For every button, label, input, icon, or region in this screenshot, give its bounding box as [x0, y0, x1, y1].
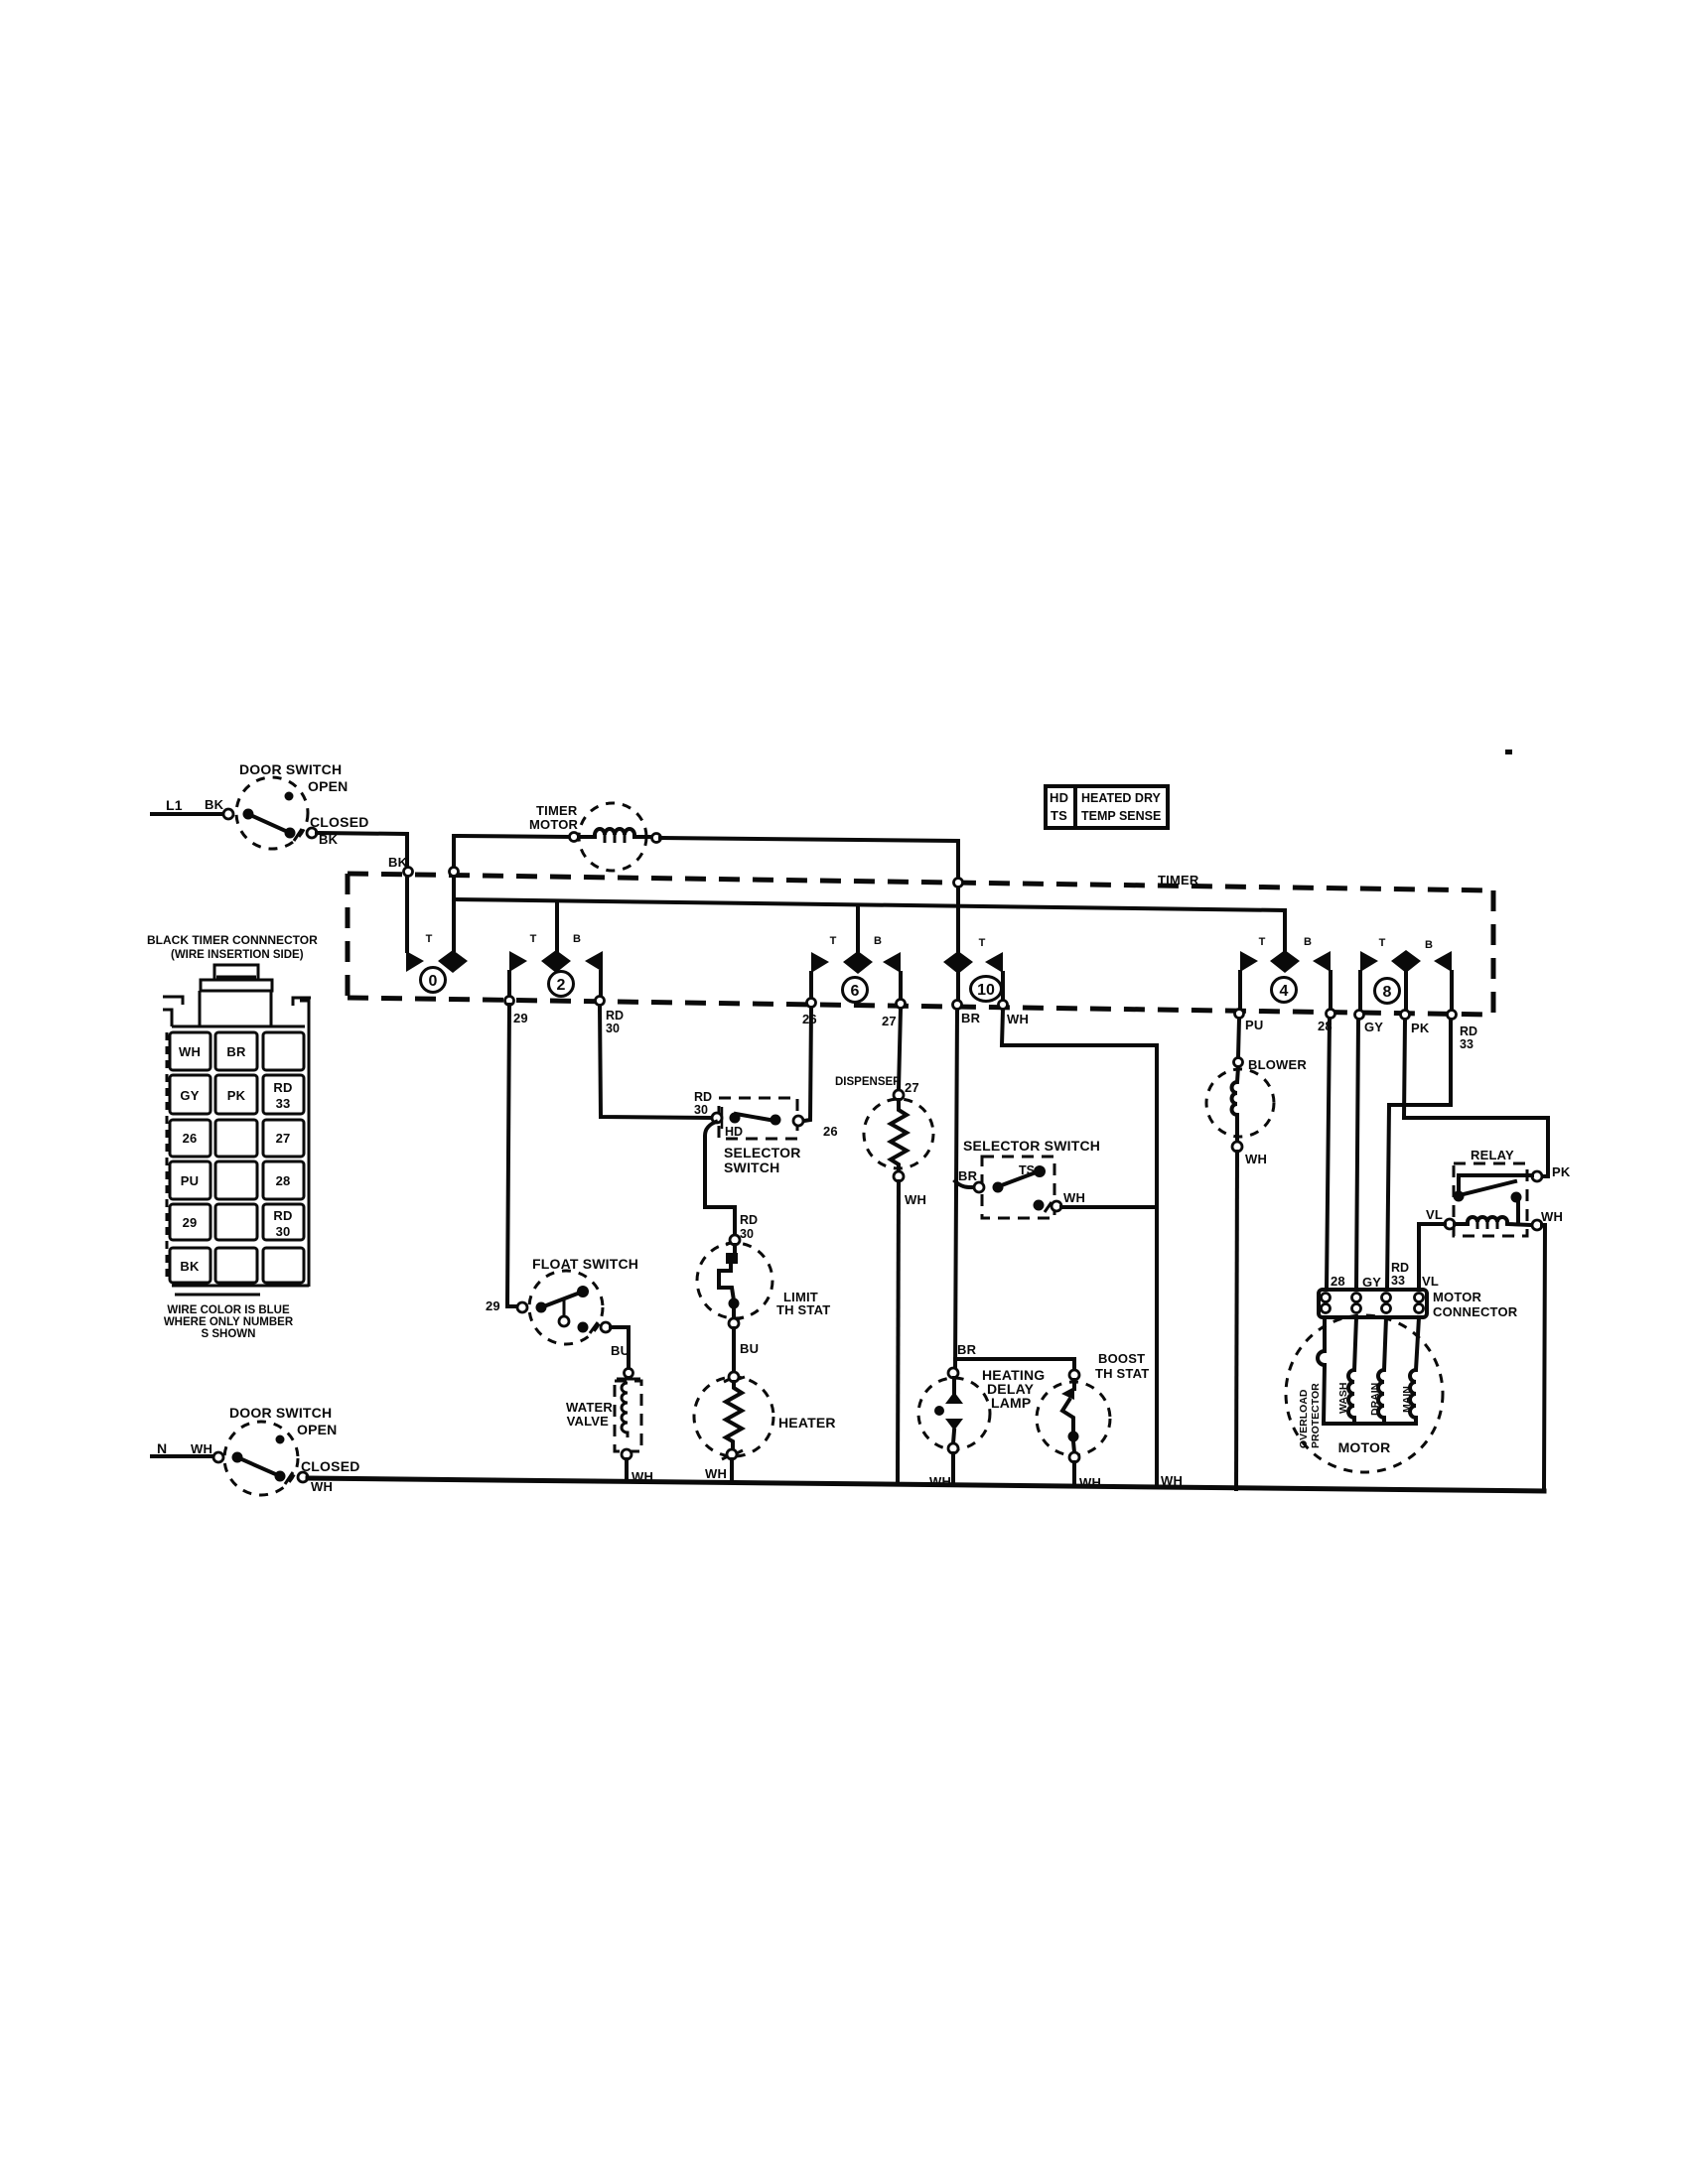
svg-text:33: 33: [276, 1096, 291, 1111]
svg-text:HD: HD: [1050, 790, 1068, 805]
svg-text:OVERLOAD: OVERLOAD: [1298, 1389, 1310, 1448]
svg-text:BK: BK: [180, 1259, 200, 1274]
svg-text:PU: PU: [1245, 1018, 1263, 1032]
svg-text:OPEN: OPEN: [308, 778, 348, 794]
svg-text:33: 33: [1391, 1274, 1405, 1288]
svg-text:29: 29: [183, 1215, 198, 1230]
wire float switch to water valve (BU): [611, 1327, 640, 1379]
svg-text:30: 30: [606, 1022, 620, 1035]
svg-text:27: 27: [905, 1080, 919, 1095]
stray ink speck: [1505, 750, 1512, 754]
svg-text:BU: BU: [740, 1341, 759, 1356]
svg-text:WH: WH: [191, 1441, 212, 1456]
water valve solenoid: [566, 1381, 653, 1484]
svg-text:GY: GY: [1362, 1275, 1381, 1290]
svg-text:RD: RD: [273, 1208, 292, 1223]
svg-text:30: 30: [694, 1103, 708, 1117]
svg-text:PK: PK: [1552, 1164, 1571, 1179]
wire door switch to timer cam 0 (BK): [317, 833, 413, 951]
svg-text:MAIN: MAIN: [1401, 1386, 1413, 1413]
connector cells row 5: 29 - RD30: [170, 1204, 304, 1240]
svg-text:WIRE COLOR IS BLUE: WIRE COLOR IS BLUE: [167, 1304, 290, 1316]
svg-text:PROTECTOR: PROTECTOR: [1310, 1383, 1322, 1448]
svg-text:B: B: [1304, 936, 1312, 948]
svg-text:DOOR SWITCH: DOOR SWITCH: [229, 1405, 332, 1421]
wire selector HD common to limit thermostat (RD 30): [705, 1122, 758, 1241]
svg-text:DRAIN: DRAIN: [1369, 1383, 1381, 1416]
svg-text:TH STAT: TH STAT: [1095, 1366, 1149, 1381]
svg-text:0: 0: [429, 973, 438, 990]
timer cam 2: [509, 901, 603, 997]
svg-text:RD: RD: [606, 1009, 624, 1023]
svg-text:MOTOR: MOTOR: [1433, 1290, 1482, 1304]
svg-text:N: N: [157, 1440, 167, 1456]
blower: [1206, 1057, 1307, 1489]
svg-text:29: 29: [486, 1298, 500, 1313]
connector cells row 6: BK - -: [170, 1248, 304, 1283]
relay: [1426, 1148, 1571, 1236]
svg-text:WH: WH: [179, 1044, 201, 1059]
dispenser: [835, 1076, 933, 1484]
svg-text:SELECTOR: SELECTOR: [724, 1145, 801, 1160]
svg-text:8: 8: [1383, 984, 1392, 1001]
svg-text:T: T: [530, 933, 537, 945]
svg-text:MOTOR: MOTOR: [529, 817, 579, 832]
svg-text:26: 26: [823, 1124, 838, 1139]
svg-text:CLOSED: CLOSED: [310, 814, 369, 830]
wire WH: cam 10 B to bottom bus: [999, 973, 1158, 1487]
svg-text:TIMER: TIMER: [1158, 873, 1199, 887]
svg-text:TEMP SENSE: TEMP SENSE: [1081, 809, 1161, 823]
timer cam 4: [1240, 936, 1331, 1003]
svg-text:GY: GY: [180, 1088, 199, 1103]
svg-text:28: 28: [1318, 1019, 1333, 1033]
svg-text:28: 28: [276, 1173, 291, 1188]
svg-text:WH: WH: [905, 1192, 926, 1207]
timer dashed enclosure: [348, 873, 1493, 1015]
svg-text:PK: PK: [1411, 1021, 1430, 1035]
door switch S2 (bottom, N side): [152, 1405, 360, 1495]
svg-text:RD: RD: [694, 1090, 712, 1104]
svg-text:RELAY: RELAY: [1471, 1148, 1514, 1162]
svg-text:BOOST: BOOST: [1098, 1351, 1145, 1366]
svg-text:T: T: [979, 937, 986, 949]
svg-text:LAMP: LAMP: [991, 1395, 1031, 1411]
svg-text:SWITCH: SWITCH: [724, 1160, 779, 1175]
svg-text:BR: BR: [961, 1011, 981, 1025]
svg-text:27: 27: [276, 1131, 291, 1146]
svg-text:28: 28: [1331, 1274, 1345, 1289]
svg-text:2: 2: [557, 977, 566, 994]
svg-text:GY: GY: [1364, 1020, 1383, 1034]
svg-text:BLOWER: BLOWER: [1248, 1057, 1307, 1072]
svg-text:PK: PK: [227, 1088, 246, 1103]
selector switch TS: [958, 1138, 1157, 1218]
svg-text:HEATER: HEATER: [778, 1415, 836, 1431]
svg-text:CONNECTOR: CONNECTOR: [1433, 1304, 1518, 1319]
svg-text:BLACK TIMER CONNNECTOR: BLACK TIMER CONNNECTOR: [147, 933, 318, 947]
wire GY: cam8 T to motor connector pin 2: [1355, 972, 1384, 1289]
svg-text:OPEN: OPEN: [297, 1422, 337, 1437]
wire PK: cam8 common to relay: [1401, 973, 1549, 1176]
svg-text:VL: VL: [1422, 1274, 1439, 1289]
timer cam 6: [811, 905, 901, 1003]
float switch: [486, 1256, 638, 1344]
svg-text:TH STAT: TH STAT: [776, 1302, 830, 1317]
svg-text:TS: TS: [1019, 1163, 1035, 1177]
svg-text:TIMER: TIMER: [536, 803, 578, 818]
svg-text:MOTOR: MOTOR: [1338, 1439, 1391, 1455]
svg-text:HD: HD: [725, 1125, 743, 1139]
svg-text:26: 26: [183, 1131, 198, 1146]
svg-text:DOOR SWITCH: DOOR SWITCH: [239, 761, 342, 777]
legend box HD/TS: [1046, 786, 1168, 828]
connector cells row 4: PU - 28: [170, 1161, 304, 1199]
wire RD 33: cam8 B to motor connector pin 3: [1387, 972, 1477, 1289]
motor overload protector: [1298, 1317, 1325, 1448]
svg-text:WH: WH: [1541, 1209, 1563, 1224]
svg-text:BR: BR: [226, 1044, 246, 1059]
svg-text:WH: WH: [1245, 1152, 1267, 1166]
svg-text:TS: TS: [1051, 808, 1067, 823]
svg-text:HEATED DRY: HEATED DRY: [1081, 791, 1162, 805]
svg-text:26: 26: [802, 1012, 817, 1026]
svg-text:WH: WH: [1161, 1473, 1183, 1488]
svg-text:6: 6: [851, 983, 860, 1000]
boost thermostat: [1037, 1351, 1149, 1490]
svg-text:4: 4: [1280, 983, 1289, 1000]
svg-text:27: 27: [882, 1014, 897, 1028]
wire relay WH to bottom bus: [1542, 1225, 1545, 1490]
wire 26: cam6 T to selector switch HD: [802, 973, 817, 1121]
connector cells row 2: GY PK RD33: [170, 1075, 304, 1114]
heater: [694, 1372, 836, 1482]
svg-text:T: T: [830, 935, 837, 947]
motor connector: [1319, 1261, 1518, 1319]
svg-text:VALVE: VALVE: [567, 1414, 610, 1429]
svg-text:BR: BR: [958, 1168, 978, 1183]
selector switch HD: [694, 1090, 838, 1175]
svg-text:BR: BR: [957, 1342, 977, 1357]
wire 28: cam4 B to motor connector pin 1: [1318, 972, 1335, 1289]
svg-text:RD: RD: [1391, 1261, 1409, 1275]
motor main winding: [1401, 1317, 1419, 1424]
svg-text:RD: RD: [273, 1080, 292, 1095]
timer cam 10: [943, 937, 1003, 1002]
svg-text:WH: WH: [1007, 1012, 1029, 1026]
svg-text:BU: BU: [611, 1343, 630, 1358]
motor drain winding: [1369, 1317, 1386, 1424]
svg-text:CLOSED: CLOSED: [301, 1458, 360, 1474]
svg-text:PU: PU: [181, 1173, 199, 1188]
svg-text:30: 30: [276, 1224, 291, 1239]
black timer connector (wire insertion side): [147, 933, 318, 1295]
door switch S1 (top, L1 side): [152, 761, 369, 849]
svg-text:VL: VL: [1426, 1207, 1443, 1222]
connector cells row 1: WH BR -: [170, 1032, 304, 1070]
svg-text:10: 10: [977, 982, 995, 999]
svg-text:DISPENSER: DISPENSER: [835, 1076, 902, 1088]
wire timer motor to cam 10 feed: [660, 838, 963, 951]
wire 29: cam2 T to float switch: [505, 972, 528, 1306]
connector note text: [164, 1304, 294, 1340]
wire 27: cam6 B to dispenser: [882, 973, 906, 1090]
wire lamp node to boost thermostat (BR): [955, 1359, 1074, 1370]
svg-text:WASH: WASH: [1337, 1383, 1349, 1415]
svg-text:T: T: [426, 933, 433, 945]
wire BR: cam 10 common to TS switch and lamp: [953, 974, 981, 1368]
svg-text:T: T: [1379, 937, 1386, 949]
svg-text:SELECTOR SWITCH: SELECTOR SWITCH: [963, 1138, 1100, 1154]
timer cam 0: [406, 933, 468, 993]
svg-text:L1: L1: [166, 797, 183, 813]
timer motor M1: [458, 803, 661, 871]
motor: [1286, 1315, 1443, 1472]
timer cam 8: [1360, 937, 1452, 1004]
svg-text:B: B: [573, 933, 581, 945]
svg-text:(WIRE INSERTION SIDE): (WIRE INSERTION SIDE): [171, 949, 304, 961]
svg-text:RD: RD: [740, 1213, 758, 1227]
svg-text:BK: BK: [205, 797, 224, 812]
svg-text:30: 30: [740, 1227, 754, 1241]
svg-text:B: B: [1425, 939, 1433, 951]
wire RD 30: cam2 B to selector switch HD: [596, 972, 712, 1118]
svg-text:FLOAT SWITCH: FLOAT SWITCH: [532, 1256, 638, 1272]
wire limit thermostat to heater (BU): [734, 1328, 759, 1372]
bottom neutral bus wire (WH): [308, 1478, 1544, 1491]
motor wash winding: [1337, 1317, 1356, 1424]
wire relay coil VL to motor connector pin 4: [1419, 1224, 1445, 1289]
wire PU: cam4 T to blower: [1235, 972, 1264, 1057]
svg-text:S SHOWN: S SHOWN: [202, 1328, 256, 1340]
svg-text:T: T: [1259, 936, 1266, 948]
timer internal bus wire: [450, 836, 1286, 950]
svg-text:RD: RD: [1460, 1024, 1477, 1038]
svg-text:WATER: WATER: [566, 1400, 613, 1415]
svg-text:WH: WH: [311, 1479, 333, 1494]
connector cells row 3: 26 - 27: [170, 1120, 304, 1157]
heating delay lamp: [918, 1342, 1045, 1489]
svg-text:33: 33: [1460, 1037, 1473, 1051]
limit thermostat: [697, 1235, 830, 1328]
svg-text:WH: WH: [1063, 1190, 1085, 1205]
motor winding common bus: [1324, 1422, 1416, 1426]
svg-text:WHERE ONLY NUMBER: WHERE ONLY NUMBER: [164, 1316, 294, 1328]
svg-text:WH: WH: [705, 1466, 727, 1481]
svg-text:B: B: [874, 935, 882, 947]
svg-text:29: 29: [513, 1011, 528, 1025]
